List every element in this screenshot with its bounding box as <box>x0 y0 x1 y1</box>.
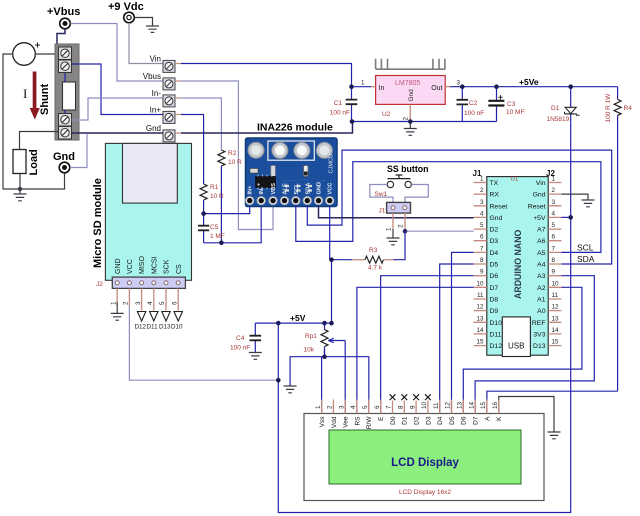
svg-text:9: 9 <box>480 269 484 276</box>
svg-text:Vss: Vss <box>319 416 326 428</box>
svg-text:1: 1 <box>361 80 365 87</box>
capacitor C2 100nF <box>457 87 485 122</box>
svg-text:R2: R2 <box>228 150 237 157</box>
wire Gnd terminal to gnd net <box>70 134 87 168</box>
wire Arduino D6 to LCD E pin 6 <box>381 276 474 414</box>
svg-text:C1: C1 <box>334 100 343 107</box>
svg-text:15: 15 <box>552 339 560 346</box>
resistor R3 4.7k <box>331 231 406 271</box>
ground symbol at Arduino Gnd <box>582 200 595 207</box>
svg-text:5: 5 <box>480 222 484 229</box>
wire Arduino +5V pin to node <box>561 216 570 218</box>
svg-text:ALE: ALE <box>283 183 289 194</box>
ground symbol bottom left <box>14 189 27 201</box>
switch Sw1 SS pushbutton <box>375 175 412 198</box>
capacitor C5 1MF <box>198 214 225 243</box>
terminal +Vbus <box>47 6 80 29</box>
svg-text:R/W: R/W <box>366 416 373 430</box>
screw terminal In+ <box>150 106 181 124</box>
wire shunt screw3 to In- terminal <box>72 98 164 120</box>
svg-text:LCD Display 16x2: LCD Display 16x2 <box>399 489 451 496</box>
wire Vbus terminal to INA226 VBS pin <box>181 81 273 230</box>
wire switch node to Arduino D2 <box>405 230 474 232</box>
label +5Ve <box>519 77 539 87</box>
ground rail under LM7805 <box>352 121 497 123</box>
shunt body <box>55 44 79 140</box>
LCD pin numbers <box>315 401 499 409</box>
svg-text:D3: D3 <box>490 238 499 245</box>
screw terminal In- <box>152 89 181 107</box>
svg-text:D4: D4 <box>490 250 499 257</box>
Micro SD pin name labels <box>115 256 183 274</box>
Micro SD connector J2 <box>96 277 185 288</box>
capacitor C1 100nF <box>330 87 358 122</box>
wire shunt screw4 to Gnd terminal <box>72 132 164 134</box>
svg-text:5: 5 <box>159 301 166 305</box>
Arduino Nano U1 body <box>473 169 556 355</box>
wire INA226 GND to Arduino Gnd <box>319 205 474 218</box>
svg-text:D0: D0 <box>390 416 397 425</box>
connector J1 (switch) <box>379 202 411 214</box>
svg-text:3: 3 <box>552 199 556 206</box>
svg-text:4.7 k: 4.7 k <box>368 265 383 272</box>
svg-text:VCC: VCC <box>127 259 134 274</box>
wire Arduino D4 to LCD pin 12 <box>452 252 474 413</box>
svg-text:14: 14 <box>468 401 475 409</box>
svg-text:U2: U2 <box>382 111 391 118</box>
svg-text:SCL: SCL <box>294 183 300 195</box>
svg-text:15: 15 <box>476 339 484 346</box>
node D10 arrow <box>171 312 183 331</box>
node +5V rail / SD VCC riser <box>276 321 281 326</box>
svg-text:R3: R3 <box>369 247 378 254</box>
svg-text:D12: D12 <box>135 324 147 331</box>
screw terminal Vin <box>150 55 181 73</box>
svg-text:100 R 1W: 100 R 1W <box>605 93 612 123</box>
svg-text:D11: D11 <box>147 324 159 331</box>
svg-text:3: 3 <box>338 405 345 409</box>
svg-text:Gnd: Gnd <box>53 151 75 163</box>
ground symbol at Micro SD pin 1 <box>111 302 124 320</box>
svg-text:1N5819: 1N5819 <box>547 116 570 123</box>
svg-text:Vbus: Vbus <box>143 72 161 81</box>
Arduino left pin names <box>490 180 508 350</box>
resistor R2 10R <box>218 150 242 166</box>
svg-text:D3: D3 <box>425 416 432 425</box>
Arduino right pin names <box>528 180 546 350</box>
svg-text:10 R: 10 R <box>210 193 224 200</box>
svg-text:4: 4 <box>147 301 154 305</box>
svg-text:D5: D5 <box>490 262 499 269</box>
svg-text:6: 6 <box>480 234 484 241</box>
wire LM7805 output pin 3 to +5Ve rail <box>445 80 617 87</box>
ground symbol at LM7805 <box>404 122 417 136</box>
current source CS1 <box>13 43 40 66</box>
svg-text:Out: Out <box>431 85 442 92</box>
node D1 top <box>568 84 573 89</box>
svg-text:SCL: SCL <box>577 243 594 253</box>
svg-text:RX: RX <box>490 192 500 199</box>
Arduino left pin stubs <box>474 183 487 346</box>
node +5V rail / Rp1 <box>322 321 327 326</box>
svg-text:10: 10 <box>421 401 428 409</box>
wire LCD A pin 15 to R4 <box>487 391 618 413</box>
node R3 / VCC riser <box>329 257 334 262</box>
svg-text:9: 9 <box>409 405 416 409</box>
svg-text:D10: D10 <box>171 324 183 331</box>
node D13 arrow <box>159 312 171 331</box>
connector pin 2 lead <box>398 213 406 231</box>
shunt screw 2 <box>59 60 72 73</box>
wire R1 to IN+ node <box>203 200 205 214</box>
svg-text:RS: RS <box>354 416 361 426</box>
svg-text:J2: J2 <box>96 281 103 288</box>
svg-text:Gnd: Gnd <box>490 215 503 222</box>
svg-text:4: 4 <box>552 210 556 217</box>
svg-text:10 R: 10 R <box>228 159 242 166</box>
svg-text:A0: A0 <box>537 308 546 315</box>
wire Vss/Rp1 ground line <box>290 349 369 414</box>
node D11 arrow <box>147 312 159 331</box>
svg-text:D7: D7 <box>490 285 499 292</box>
ground symbol at Rp1 line <box>284 386 297 393</box>
svg-text:SDA: SDA <box>577 254 595 264</box>
resistor R4 100R 1W <box>605 87 632 392</box>
capacitor C3 10MF polarized <box>488 87 524 122</box>
svg-text:8: 8 <box>552 257 556 264</box>
screw terminal Vbus <box>143 72 181 90</box>
node C3 top <box>494 84 499 89</box>
svg-text:1: 1 <box>110 301 117 305</box>
node LM7805 gnd / rail <box>408 119 413 124</box>
svg-text:A7: A7 <box>537 227 546 234</box>
terminal Gnd (bottom) <box>53 151 75 173</box>
svg-text:In: In <box>379 85 385 92</box>
svg-text:CJMCU: CJMCU <box>329 154 335 174</box>
svg-text:D10: D10 <box>490 320 503 327</box>
svg-text:D8: D8 <box>490 297 499 304</box>
svg-text:11: 11 <box>477 292 484 299</box>
svg-text:3: 3 <box>480 199 484 206</box>
svg-text:9: 9 <box>552 269 556 276</box>
terminal +9 Vdc <box>108 1 144 23</box>
svg-text:Reset: Reset <box>528 203 546 210</box>
svg-text:REF: REF <box>532 320 546 327</box>
svg-text:D13: D13 <box>533 343 546 350</box>
svg-text:13: 13 <box>552 315 560 322</box>
svg-text:Vin: Vin <box>536 180 546 187</box>
svg-text:5: 5 <box>552 222 556 229</box>
node load/gnd junction <box>18 187 22 191</box>
Arduino USB connector <box>502 317 530 357</box>
node +5V / D1 <box>568 215 573 220</box>
capacitor C4 100nF <box>230 323 261 352</box>
wire Micro SD VCC to +5V node <box>129 306 278 381</box>
LCD pin names <box>319 416 503 430</box>
svg-text:7: 7 <box>480 245 484 252</box>
svg-text:MCSI: MCSI <box>151 256 158 274</box>
wire INA226 SCL to Arduino A5 <box>296 162 601 253</box>
wire +9Vdc to ground <box>135 18 153 26</box>
label Shunt <box>39 84 51 115</box>
svg-text:11: 11 <box>433 402 440 409</box>
diode D1 1N5819 <box>547 87 580 218</box>
LCD no-connect X marks D0-D3 <box>390 394 431 400</box>
LM7805 ground pin 2 <box>403 104 411 121</box>
svg-text:Micro SD module: Micro SD module <box>92 178 104 268</box>
svg-text:A1: A1 <box>537 297 546 304</box>
wire +Vbus to Vbus screw terminal <box>71 24 164 82</box>
LCD pin stubs <box>322 400 499 414</box>
svg-text:13: 13 <box>476 315 484 322</box>
wire +Vbus to shunt screw 1 <box>57 29 65 52</box>
svg-text:D5: D5 <box>449 416 456 425</box>
Arduino right pin stubs <box>548 183 561 346</box>
svg-text:1: 1 <box>552 176 556 183</box>
svg-text:Shunt: Shunt <box>39 84 51 115</box>
svg-text:2: 2 <box>552 187 556 194</box>
svg-text:100 nF: 100 nF <box>464 110 484 117</box>
svg-text:3: 3 <box>135 301 142 305</box>
svg-text:D6: D6 <box>461 416 468 425</box>
svg-text:D11: D11 <box>490 331 502 338</box>
INA226 board U3 <box>246 138 338 207</box>
svg-text:2: 2 <box>403 117 410 121</box>
Rp1 wiper wire to LCD Vee <box>328 338 345 413</box>
INA226 pin holes and labels <box>246 182 334 205</box>
svg-text:Vee: Vee <box>343 416 350 428</box>
svg-text:2: 2 <box>327 405 334 409</box>
svg-text:12: 12 <box>445 401 452 409</box>
wire Gnd terminal to ground rail <box>181 122 353 134</box>
svg-text:16: 16 <box>492 401 499 409</box>
wire Arduino A2 to LCD D6 pin 13 <box>463 287 582 413</box>
svg-text:14: 14 <box>476 327 484 334</box>
svg-text:12: 12 <box>552 304 560 311</box>
svg-text:2: 2 <box>480 187 484 194</box>
svg-text:D2: D2 <box>490 227 499 234</box>
svg-text:6: 6 <box>552 234 556 241</box>
svg-text:C2: C2 <box>469 100 478 107</box>
svg-text:C4: C4 <box>236 335 245 342</box>
Arduino right pin numbers <box>552 176 560 346</box>
svg-text:3: 3 <box>457 80 461 87</box>
LCD green screen <box>329 430 521 484</box>
svg-text:6: 6 <box>171 301 178 305</box>
node Vin/C1/LM7805 <box>349 84 354 89</box>
current arrow I <box>23 72 40 120</box>
svg-text:A6: A6 <box>537 238 546 245</box>
svg-text:+Vbus: +Vbus <box>47 6 80 18</box>
svg-text:5: 5 <box>362 405 369 409</box>
svg-text:D1: D1 <box>551 105 560 112</box>
svg-text:4: 4 <box>350 405 357 409</box>
label LCD Display 16x2 <box>399 489 451 496</box>
svg-text:1 MF: 1 MF <box>210 233 225 240</box>
potentiometer Rp1 10k <box>304 323 329 357</box>
node +5V rail / VCC riser <box>329 321 334 326</box>
svg-text:ARDUINO NANO: ARDUINO NANO <box>513 229 523 299</box>
node Rp1 bottom / gnd line <box>322 354 327 359</box>
wire LCD K pin 16 to ground <box>499 397 554 432</box>
svg-text:1: 1 <box>386 227 393 231</box>
svg-text:1: 1 <box>480 176 484 183</box>
svg-text:A: A <box>484 416 491 421</box>
svg-text:Reset: Reset <box>490 203 508 210</box>
resistor R1 10R <box>200 184 224 200</box>
shunt screw 3 <box>59 114 72 127</box>
wire load to shunt screw4 <box>20 132 59 150</box>
svg-text:C5: C5 <box>210 224 219 231</box>
shunt screw 1 <box>59 47 72 60</box>
Micro SD pin leads and numbers <box>110 288 178 310</box>
svg-text:A2: A2 <box>537 285 546 292</box>
label SCL <box>577 243 594 253</box>
svg-text:USB: USB <box>508 342 524 351</box>
svg-text:+5V: +5V <box>533 215 546 222</box>
svg-text:D7: D7 <box>473 416 480 425</box>
svg-text:SDA: SDA <box>305 183 311 195</box>
svg-text:Load: Load <box>28 149 40 175</box>
wire In- terminal to R2 <box>181 98 221 150</box>
svg-text:8: 8 <box>480 257 484 264</box>
svg-text:D2: D2 <box>414 416 421 425</box>
svg-text:LM7805: LM7805 <box>395 80 420 87</box>
svg-text:10: 10 <box>476 280 484 287</box>
svg-text:13: 13 <box>457 401 464 409</box>
node C1 bottom / gnd rail <box>350 119 355 124</box>
svg-text:INA226 module: INA226 module <box>257 122 333 134</box>
svg-text:TX: TX <box>490 180 499 187</box>
svg-text:10k: 10k <box>304 347 315 354</box>
svg-text:12: 12 <box>476 304 484 311</box>
label SDA <box>577 254 595 264</box>
heatsink on LM7805 <box>376 59 446 69</box>
svg-text:2: 2 <box>398 224 405 228</box>
svg-text:R1: R1 <box>210 184 219 191</box>
svg-text:11: 11 <box>552 292 559 299</box>
svg-text:7: 7 <box>552 245 556 252</box>
svg-text:VBS: VBS <box>271 183 277 195</box>
svg-text:+9 Vdc: +9 Vdc <box>108 1 144 13</box>
wire +5V riser to bottom rail <box>278 217 570 512</box>
ground symbol at C4 <box>249 353 262 360</box>
svg-text:GND: GND <box>317 182 323 194</box>
svg-text:IN+: IN+ <box>248 185 254 195</box>
svg-text:2: 2 <box>123 301 130 305</box>
wire Vin terminal to LM7805 input node <box>181 64 352 87</box>
wire INA226 VCC to R3 and +5V rail <box>330 205 332 323</box>
svg-text:SS button: SS button <box>387 164 429 174</box>
svg-text:Gnd: Gnd <box>533 192 546 199</box>
svg-text:Vin: Vin <box>150 55 161 64</box>
node junction R1/C5/IN+ <box>201 211 206 216</box>
svg-text:Vdd: Vdd <box>331 416 338 428</box>
node switch/R3/D2 <box>403 229 408 234</box>
wire Arduino Gnd pin to ground <box>561 194 588 199</box>
svg-text:GND: GND <box>115 258 122 274</box>
svg-text:D12: D12 <box>490 343 503 350</box>
svg-text:A4: A4 <box>537 262 546 269</box>
svg-text:7: 7 <box>386 405 393 409</box>
load R-load <box>13 149 40 175</box>
wire LM7805 input pin 1 <box>352 80 376 87</box>
svg-text:D9: D9 <box>490 308 499 315</box>
svg-text:6: 6 <box>374 405 381 409</box>
wire IN+ node to INA226 IN+ pin <box>204 205 250 214</box>
svg-text:U1: U1 <box>511 176 519 182</box>
svg-text:E: E <box>378 416 385 421</box>
svg-text:I: I <box>23 86 27 101</box>
svg-text:10: 10 <box>552 280 560 287</box>
svg-text:100 nF: 100 nF <box>330 110 350 117</box>
svg-text:+5Ve: +5Ve <box>519 77 539 87</box>
node D12 arrow <box>135 312 147 331</box>
Micro SD module body <box>92 143 192 280</box>
svg-text:D13: D13 <box>159 324 171 331</box>
label INA226 module <box>257 122 333 134</box>
wire IN- node to INA226 IN- pin <box>204 205 262 243</box>
regulator U2 LM7805 <box>376 76 446 119</box>
svg-text:D4: D4 <box>437 416 444 425</box>
wire shunt screw2 to In+ terminal <box>72 64 164 115</box>
wire switch to connector <box>370 185 429 203</box>
wire Arduino D5 to LCD pin 11 <box>440 264 474 414</box>
Arduino left pin numbers <box>476 176 484 346</box>
wire +9Vdc to Vin terminal <box>129 23 163 64</box>
svg-text:Rp1: Rp1 <box>305 333 317 340</box>
wire current source to shunt <box>35 53 58 55</box>
wire INA226 SDA to Arduino A4 <box>307 150 611 264</box>
svg-text:+5V: +5V <box>290 313 306 323</box>
svg-text:J1: J1 <box>379 208 386 215</box>
ground symbol at LCD K <box>548 432 561 439</box>
svg-text:In+: In+ <box>150 106 162 115</box>
connector pin 1 lead to ground <box>386 213 394 237</box>
wire In+ terminal to R1 <box>181 115 204 185</box>
svg-text:A5: A5 <box>537 250 546 257</box>
svg-text:D1: D1 <box>402 416 409 425</box>
svg-text:VCC: VCC <box>328 183 334 195</box>
svg-text:15: 15 <box>480 401 487 409</box>
node junction R2/C5/IN- <box>219 241 224 246</box>
svg-text:Gnd: Gnd <box>146 124 161 133</box>
svg-text:SCK: SCK <box>164 259 171 274</box>
wire Arduino D7 to LCD RS pin 4 <box>357 287 474 413</box>
svg-text:14: 14 <box>552 327 560 334</box>
node SD VCC joins +5V riser <box>276 378 281 383</box>
svg-text:In-: In- <box>152 89 162 98</box>
label SS button <box>387 164 429 174</box>
svg-text:IN-: IN- <box>259 187 265 195</box>
ground symbol at +9Vdc <box>146 26 159 32</box>
wire Arduino A3 to LCD D7 pin 14 <box>475 276 594 414</box>
wire R2 to IN- net <box>220 166 222 243</box>
svg-text:K: K <box>496 416 503 421</box>
svg-text:LCD Display: LCD Display <box>391 457 459 469</box>
svg-text:A3: A3 <box>537 273 546 280</box>
screw terminal Gnd <box>146 124 181 142</box>
svg-text:C3: C3 <box>507 101 516 108</box>
svg-text:D6: D6 <box>490 273 499 280</box>
svg-text:3V3: 3V3 <box>533 331 545 338</box>
svg-text:100 nF: 100 nF <box>230 345 250 352</box>
shunt screw 4 <box>59 127 72 140</box>
svg-text:Gnd: Gnd <box>408 89 415 102</box>
svg-text:R4: R4 <box>624 105 633 112</box>
node C2 top <box>460 84 465 89</box>
+5V rail <box>255 313 333 323</box>
